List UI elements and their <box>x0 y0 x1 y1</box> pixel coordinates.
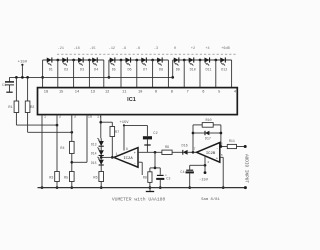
wire: chain group2 anode down to +15V rail <box>108 60 110 77</box>
node LED chain tap x=57.8 <box>56 59 59 62</box>
resistor R10 body <box>202 123 213 128</box>
LED D13 <box>99 141 104 146</box>
wire: D16 to IC2B output <box>188 151 197 153</box>
svg-text:-9: -9 <box>122 47 126 51</box>
wire: R11 to input terminal <box>237 146 246 148</box>
resistor R2 <box>26 76 29 79</box>
LED D10 <box>189 57 194 62</box>
wire: jog to R7 <box>101 121 113 123</box>
svg-text:5: 5 <box>218 91 220 95</box>
resistor R3 body <box>55 172 60 182</box>
wire <box>15 77 17 101</box>
svg-text:D16: D16 <box>182 144 188 148</box>
svg-text:D12: D12 <box>221 69 227 73</box>
node LED chain tap x=73.6 <box>72 59 75 62</box>
svg-text:10: 10 <box>138 91 142 95</box>
resistor R9 body <box>162 150 172 154</box>
resistor R1 <box>15 76 18 79</box>
svg-text:R8: R8 <box>143 177 147 181</box>
node LED chain tap x=184.2 <box>183 59 186 62</box>
junction <box>149 186 152 189</box>
svg-text:R6: R6 <box>93 176 97 180</box>
wire <box>154 152 156 168</box>
svg-text:VUMETER with UAA180: VUMETER with UAA180 <box>112 196 166 202</box>
resistor R6 body <box>99 172 104 182</box>
svg-text:C2: C2 <box>153 132 157 136</box>
wire <box>146 191 154 193</box>
terminal +15V opamp <box>123 124 125 126</box>
ground rail <box>38 187 246 189</box>
wire: tap down to IC1 pin <box>73 60 75 88</box>
svg-text:9: 9 <box>155 91 157 95</box>
svg-text:14: 14 <box>75 91 80 95</box>
wire: tap down to IC1 pin <box>120 60 122 88</box>
op-amp IC2B <box>197 143 220 163</box>
wire <box>210 132 221 134</box>
svg-text:2: 2 <box>59 115 61 119</box>
wire: pin 17 vertical <box>100 115 102 139</box>
svg-text:R4: R4 <box>60 147 64 151</box>
svg-text:R1: R1 <box>8 106 12 110</box>
wire: C2 bottom lead <box>146 139 148 152</box>
terminal audio input ground <box>244 186 247 189</box>
wire: LED chain group 3 horizontal <box>173 59 232 61</box>
wire <box>193 124 202 126</box>
svg-text:7: 7 <box>193 147 195 151</box>
LED D5 <box>110 57 115 62</box>
svg-text:IC2A: IC2A <box>123 157 133 161</box>
svg-text:D8: D8 <box>159 69 163 73</box>
svg-text:R10: R10 <box>205 119 211 123</box>
wire: C4 to ground <box>189 173 191 187</box>
junction <box>188 186 191 189</box>
wire: C3 top lead <box>159 168 161 175</box>
wire: IC2B -input to R11 <box>220 146 228 148</box>
wire: pin 1 to ground <box>41 115 43 188</box>
svg-text:D2: D2 <box>64 69 68 73</box>
junction D17 left <box>192 132 195 135</box>
terminal +15V <box>21 64 23 66</box>
LED D6 <box>125 57 130 62</box>
node LED chain tap x=215.8 <box>214 59 217 62</box>
resistor R11 body <box>227 144 236 148</box>
wire: R2 bottom to pin 3 net <box>27 113 29 133</box>
svg-text:D7: D7 <box>143 69 147 73</box>
wire: LED chain group 1 horizontal <box>43 59 104 61</box>
svg-text:-12: -12 <box>109 47 115 51</box>
junction <box>41 186 44 189</box>
junction rail end / group3 anode <box>171 76 174 79</box>
svg-text:AUDIO INPUT: AUDIO INPUT <box>244 154 249 183</box>
wire: chain group2 end down to pin 8 <box>167 60 169 88</box>
junction R7/output wire <box>111 156 114 159</box>
svg-text:R11: R11 <box>229 140 235 144</box>
svg-text:D11: D11 <box>205 69 211 73</box>
svg-text:15: 15 <box>59 91 63 95</box>
svg-text:R2: R2 <box>30 106 34 110</box>
wire <box>111 122 113 126</box>
wire: R4 bottom to node <box>71 154 73 172</box>
+15V rail <box>10 76 173 78</box>
junction rail / group2 anode <box>108 76 111 79</box>
LED D7 <box>141 57 146 62</box>
svg-text:6: 6 <box>202 91 204 95</box>
wire D14-D15 <box>100 156 102 160</box>
svg-text:R3: R3 <box>49 176 53 180</box>
wire <box>100 138 102 141</box>
svg-text:18: 18 <box>44 91 48 95</box>
wire <box>28 131 72 133</box>
svg-text:D10: D10 <box>190 69 196 73</box>
junction <box>56 186 59 189</box>
op-amp IC2A <box>114 148 138 168</box>
junction feedback/output <box>192 151 195 154</box>
svg-text:16: 16 <box>88 115 92 119</box>
wire: LED chain group 2 horizontal <box>109 59 168 61</box>
resistor R4 body <box>70 141 75 153</box>
wire: R6 to ground <box>100 182 102 188</box>
svg-text:Sam 8/81: Sam 8/81 <box>201 197 220 202</box>
svg-text:12: 12 <box>105 91 109 95</box>
wire <box>189 165 191 169</box>
wire: R1 bottom to pin 2 net <box>15 113 17 126</box>
ground symbol <box>149 188 151 192</box>
svg-text:3: 3 <box>74 115 76 119</box>
wire: R7 bottom to output node <box>111 137 113 158</box>
node LED chain tap x=89.4 <box>88 59 91 62</box>
wire: feedback left vertical <box>192 125 194 152</box>
wire: pin 16 jog to pin3 net <box>86 115 88 163</box>
junction <box>159 186 162 189</box>
svg-text:R9: R9 <box>165 146 169 150</box>
junction D17 right <box>220 132 223 135</box>
resistor R8 <box>149 168 151 172</box>
diode D16 symbol <box>183 150 188 155</box>
svg-text:D3: D3 <box>80 69 84 73</box>
LED D8 <box>157 57 162 62</box>
wire: chain group3 anode down to +15V rail end <box>172 60 174 77</box>
svg-text:D4: D4 <box>94 69 98 73</box>
svg-text:7: 7 <box>186 91 188 95</box>
LED D12 <box>220 57 225 62</box>
wire: C3 to ground <box>159 180 161 188</box>
junction R1/pin2 wire <box>56 124 59 127</box>
wire: IC2A output to pin17 node <box>101 156 115 158</box>
wire <box>222 157 224 187</box>
op-amp IC1 UAA180 body <box>38 88 238 115</box>
wire D13-D14 <box>100 146 102 150</box>
wire: tap down to IC1 pin <box>57 60 59 88</box>
svg-text:D15: D15 <box>91 161 97 165</box>
junction node line <box>154 167 157 170</box>
wire <box>27 77 29 101</box>
svg-text:1: 1 <box>116 152 118 156</box>
wire: chain group3 end down to pin 4 <box>231 60 233 88</box>
C1 end bar <box>6 91 12 93</box>
LED D15 <box>99 160 104 165</box>
svg-text:13: 13 <box>91 91 95 95</box>
wire: R10 right to vertical <box>213 124 221 126</box>
dB scale dashed line <box>57 53 237 55</box>
wire <box>71 182 73 188</box>
wire: C2 to +15V terminal <box>124 124 147 126</box>
svg-text:5: 5 <box>221 154 223 157</box>
wire <box>72 161 87 163</box>
svg-text:IC1: IC1 <box>127 97 136 103</box>
svg-text:+6dB: +6dB <box>221 46 229 51</box>
diode D17 symbol <box>205 131 209 135</box>
junction rail/+15V <box>21 76 24 79</box>
wire <box>16 124 57 126</box>
svg-text:R7: R7 <box>115 131 119 135</box>
svg-text:4: 4 <box>207 161 209 164</box>
junction pin3/pin16 net <box>70 161 73 164</box>
node LED chain tap x=136.8 <box>135 59 138 62</box>
wire <box>141 162 143 175</box>
wire: C1 bottom lead <box>9 85 11 92</box>
wire: +15V to IC2A pin 8 <box>123 125 125 150</box>
svg-text:IC2B: IC2B <box>206 152 216 156</box>
LED D11 <box>204 57 209 62</box>
svg-text:-15: -15 <box>89 47 95 51</box>
wire: D15 to R6 <box>100 165 102 172</box>
LED D4 <box>92 57 97 62</box>
junction <box>70 186 73 189</box>
svg-text:C1: C1 <box>2 84 6 88</box>
svg-text:+4: +4 <box>205 47 209 51</box>
wire: IC2B pin 4 to -15V <box>204 156 206 173</box>
resistor R7 body <box>110 127 115 137</box>
svg-text:D17: D17 <box>205 137 211 141</box>
wire: tap down to IC1 pin <box>199 60 201 88</box>
junction <box>222 186 225 189</box>
wire: IC2A +input row <box>138 151 162 153</box>
node LED chain tap x=121.0 <box>120 59 123 62</box>
junction feedback/-input <box>220 145 223 148</box>
LED D2 <box>62 57 67 62</box>
svg-text:-21: -21 <box>58 47 64 51</box>
svg-text:-15V: -15V <box>199 179 209 183</box>
svg-text:8: 8 <box>126 147 128 151</box>
svg-text:R5: R5 <box>64 176 68 180</box>
svg-text:-: - <box>216 147 218 151</box>
wire: feedback right vertical <box>220 125 222 147</box>
svg-text:D9: D9 <box>176 69 180 73</box>
resistor R5 body <box>70 172 75 182</box>
wire: +15V drop to rail <box>21 65 23 78</box>
svg-text:+: + <box>134 152 136 156</box>
wire <box>56 182 58 188</box>
svg-text:+2: +2 <box>191 47 195 51</box>
junction <box>100 186 103 189</box>
wire: rail end down to C1 <box>9 77 11 82</box>
wire: tap down to IC1 pin <box>152 60 154 88</box>
svg-text:+: + <box>216 158 218 162</box>
wire: tap down to IC1 pin <box>136 60 138 88</box>
node LED chain tap x=200.0 <box>199 59 202 62</box>
wire: tap down to IC1 pin <box>215 60 217 88</box>
wire: tap down to IC1 pin <box>88 60 90 88</box>
junction +15V rail / pin18 <box>41 76 44 79</box>
junction output/pin17 wire <box>100 156 103 159</box>
terminal audio input <box>244 145 247 148</box>
wire: chain group1 end down to pin 12 <box>103 60 105 88</box>
svg-text:8: 8 <box>171 91 173 95</box>
wire <box>193 132 205 134</box>
svg-text:C4: C4 <box>180 171 184 175</box>
svg-text:D1: D1 <box>49 69 53 73</box>
svg-text:-18: -18 <box>73 47 79 51</box>
junction C4/pin4 <box>204 164 207 167</box>
svg-text:11: 11 <box>122 91 127 95</box>
resistor R2 body <box>25 101 30 113</box>
wire: chain group1 start down to pin 18 <box>42 60 44 88</box>
junction pin17/R7 <box>99 121 102 124</box>
LED D14 <box>99 150 104 155</box>
svg-text:D5: D5 <box>112 69 116 73</box>
svg-text:D13: D13 <box>91 142 97 146</box>
wire: tap down to IC1 pin <box>183 60 185 88</box>
wire: IC2B +input to ground <box>220 156 223 158</box>
svg-text:0: 0 <box>174 47 176 51</box>
wire: pin 2 down through R3 to ground <box>56 115 58 172</box>
node LED chain tap x=152.6 <box>151 59 154 62</box>
junction R2/pin3 wire <box>70 131 73 134</box>
svg-text:D6: D6 <box>127 69 131 73</box>
svg-text:D14: D14 <box>91 152 97 156</box>
junction +input/R8C3 <box>154 151 157 154</box>
wire: R8/C3 node line <box>150 167 160 169</box>
LED D1 <box>47 57 52 62</box>
wire: R9 to D16 <box>172 151 183 153</box>
svg-text:C3: C3 <box>166 178 170 182</box>
capacitor C1 plates <box>5 81 14 83</box>
svg-text:-: - <box>134 163 136 167</box>
wire: C2 top lead <box>146 125 148 136</box>
wire: pin 3 down through R4 <box>71 115 73 142</box>
wire: IC2A -input stub <box>138 161 142 163</box>
resistor R1 body <box>14 101 19 113</box>
capacitor C4 <box>190 164 205 166</box>
resistor R8 body <box>148 172 152 183</box>
LED D3 <box>78 57 83 62</box>
wire: R8 to ground <box>149 182 151 187</box>
terminal -15V <box>204 171 207 174</box>
svg-text:-6: -6 <box>136 47 140 51</box>
LED D9 <box>174 57 179 62</box>
svg-text:-3: -3 <box>154 47 158 51</box>
